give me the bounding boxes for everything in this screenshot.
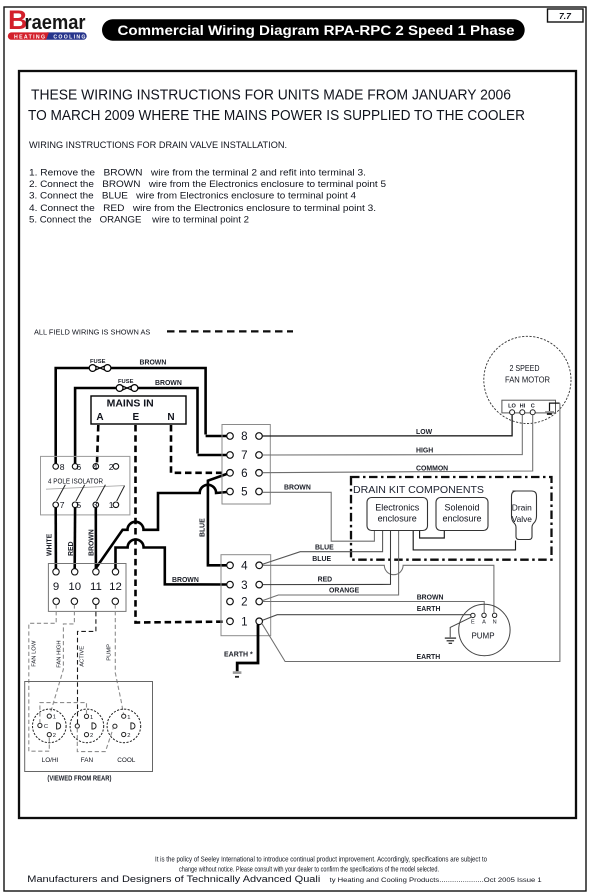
svg-text:N: N: [167, 412, 174, 423]
wire LOW terminal 8 to motor LO: [262, 415, 512, 436]
TB3 top circles: [53, 569, 119, 575]
wire ORANGE terminal 2 to electronics pin4: [263, 531, 399, 601]
svg-text:FAN: FAN: [81, 757, 94, 764]
svg-text:3. Connect the BLUE wire f: 3. Connect the BLUE wire from Electronic…: [29, 191, 356, 201]
svg-text:COOL: COOL: [117, 757, 136, 764]
svg-text:N: N: [493, 620, 497, 626]
TB2 numbers: [241, 560, 248, 629]
svg-text:MAINS IN: MAINS IN: [107, 398, 154, 409]
svg-text:4: 4: [93, 462, 98, 472]
svg-text:7: 7: [60, 500, 65, 510]
svg-text:change without notice. Please: change without notice. Please consult wi…: [179, 867, 439, 874]
svg-text:A: A: [96, 412, 103, 423]
TB3 numbers: [53, 581, 122, 593]
fuse F1: [89, 365, 111, 372]
wire dashed EARTH E from MAINS down to terminal 1: [136, 425, 228, 623]
wire BLUE terminal 6 to terminal 4: [208, 474, 228, 566]
4 pole isolator box: [41, 456, 130, 515]
svg-text:EARTH: EARTH: [417, 654, 441, 661]
svg-text:EARTH *: EARTH *: [224, 651, 253, 658]
wire dashed FAN LOW terminal 9 to LO/HI pin 2: [29, 604, 56, 751]
wire RED terminal 3 to electronics pin3: [263, 531, 391, 585]
fuse F2: [116, 385, 138, 392]
wire dashed ACTIVE A from MAINS to isolator 4: [97, 425, 98, 463]
wire EARTH terminal 1 to fan motor ground: [262, 403, 560, 661]
svg-text:9: 9: [53, 581, 59, 593]
svg-text:PUMP: PUMP: [471, 632, 494, 641]
wire from terminal12 top over to terminal 3 (jumps E dash): [116, 540, 228, 585]
wire BROWN from isolator 8 up-over to terminal 8 (left of fuse F1): [56, 368, 228, 465]
svg-text:A: A: [482, 620, 486, 626]
svg-text:6: 6: [241, 467, 247, 480]
svg-text:1: 1: [90, 715, 93, 721]
svg-text:TO MARCH 2009 WHERE THE MAINS: TO MARCH 2009 WHERE THE MAINS POWER IS S…: [28, 107, 525, 124]
svg-text:2: 2: [241, 596, 247, 609]
wire HIGH terminal 7 to motor HI: [262, 415, 522, 455]
svg-text:C: C: [531, 403, 535, 409]
svg-text:11: 11: [90, 581, 102, 593]
svg-text:HIGH: HIGH: [416, 447, 433, 454]
COOL key notch: [131, 723, 135, 729]
svg-text:LO: LO: [508, 403, 516, 409]
svg-text:BROWN: BROWN: [140, 359, 167, 366]
isolator bottom contacts 7 5 3 1: [53, 502, 119, 508]
svg-text:THESE WIRING INSTRUCTIONS FOR: THESE WIRING INSTRUCTIONS FOR UNITS MADE…: [31, 87, 511, 104]
svg-text:7.7: 7.7: [559, 11, 572, 21]
wire BROWN from isolator 6 up-over to terminal 7 (through fuse F2): [75, 388, 227, 464]
svg-text:HEATING: HEATING: [14, 34, 46, 40]
svg-text:RED: RED: [68, 541, 75, 556]
svg-text:4 POLE ISOLATOR: 4 POLE ISOLATOR: [48, 478, 103, 486]
wire RED isolator 5 to terminal 10: [73, 508, 76, 569]
svg-text:BROWN: BROWN: [88, 529, 95, 556]
svg-text:It is the policy of Seeley Int: It is the policy of Seeley International…: [155, 857, 487, 864]
wire dashed ACTIVE terminal 11 to FAN pin C: [78, 604, 96, 723]
svg-text:Commercial Wiring Diagram RPA-: Commercial Wiring Diagram RPA-RPC 2 Spee…: [118, 23, 515, 38]
svg-text:2. Connect the BROWN wire: 2. Connect the BROWN wire from the Elect…: [29, 179, 386, 189]
svg-text:8: 8: [60, 462, 65, 472]
TB1 terminal circles: [227, 433, 263, 495]
svg-text:RED: RED: [318, 576, 333, 583]
svg-text:2: 2: [127, 733, 130, 739]
svg-text:2: 2: [53, 733, 56, 739]
svg-text:COMMON: COMMON: [416, 465, 448, 472]
svg-text:4: 4: [241, 560, 248, 573]
field wiring legend dashed sample: [167, 330, 293, 332]
svg-text:1: 1: [241, 616, 247, 629]
svg-text:BLUE: BLUE: [315, 545, 334, 552]
terminal block TB2 (4 3 2 1): [221, 555, 271, 636]
svg-text:(VIEWED FROM REAR): (VIEWED FROM REAR): [47, 774, 111, 783]
COOL pins: [113, 714, 126, 737]
TB1 numbers: [241, 430, 247, 499]
svg-text:FAN MOTOR: FAN MOTOR: [505, 374, 550, 384]
svg-text:EARTH: EARTH: [417, 606, 441, 613]
FAN key notch: [92, 723, 96, 729]
svg-text:E: E: [132, 412, 139, 423]
isolator linkage bar: [46, 486, 124, 490]
svg-text:BROWN: BROWN: [417, 595, 444, 602]
svg-text:ALL FIELD WIRING IS SHOWN AS: ALL FIELD WIRING IS SHOWN AS: [34, 328, 150, 337]
svg-text:WHITE: WHITE: [47, 533, 54, 556]
connector COOL outline: [107, 709, 141, 743]
wire electronics pin6 to solenoid: [420, 531, 445, 538]
wire BROWN isolator 3 to terminal 11: [95, 508, 98, 569]
svg-text:PUMP: PUMP: [107, 644, 113, 661]
svg-text:BROWN: BROWN: [172, 577, 199, 584]
fan motor ground symbol: [545, 403, 560, 414]
svg-text:BROWN: BROWN: [155, 380, 182, 387]
svg-text:FUSE: FUSE: [118, 379, 134, 385]
svg-text:WIRING INSTRUCTIONS FOR DRAIN: WIRING INSTRUCTIONS FOR DRAIN VALVE INST…: [29, 140, 287, 150]
jumper dashed FAN pin C to COOL pin C: [77, 728, 113, 752]
svg-text:enclosure: enclosure: [378, 514, 417, 524]
LO/HI pins: [38, 714, 52, 737]
svg-text:10: 10: [68, 581, 81, 593]
svg-text:enclosure: enclosure: [442, 514, 481, 524]
fan motor terminal box: [502, 400, 556, 413]
pump ground symbol: [445, 617, 471, 643]
svg-text:BROWN: BROWN: [284, 485, 311, 492]
svg-text:C: C: [44, 724, 48, 730]
svg-text:1. Remove the BROWN wire f: 1. Remove the BROWN wire from the termin…: [29, 167, 366, 177]
svg-text:LO/HI: LO/HI: [42, 757, 59, 764]
wire BROWN terminal 5 to electronics pin1: [262, 492, 374, 541]
FAN pins: [75, 714, 88, 736]
wire dashed NEUTRAL N from MAINS to terminal 6: [171, 425, 227, 473]
drain kit components dash-dot box: [351, 477, 552, 560]
fan motor circle: [484, 336, 571, 423]
Braemar logo: [8, 5, 87, 40]
main content box: [19, 71, 576, 818]
svg-text:DRAIN KIT COMPONENTS: DRAIN KIT COMPONENTS: [353, 485, 484, 496]
wire BROWN branch from 11 up to terminal 5 (jumps E dash and BLUE): [96, 485, 228, 568]
svg-text:HI: HI: [520, 403, 526, 409]
svg-text:FAN LOW: FAN LOW: [32, 640, 38, 667]
svg-text:ACTIVE: ACTIVE: [79, 646, 85, 667]
svg-text:4. Connect the RED wire fr: 4. Connect the RED wire from the Electro…: [29, 203, 376, 213]
svg-text:7: 7: [241, 449, 247, 462]
wire EARTH from terminal 1 down to ground: [237, 624, 258, 671]
svg-text:5: 5: [76, 500, 81, 510]
terminal block TB3 (9 10 11 12): [48, 564, 126, 612]
connector FAN outline: [70, 709, 104, 743]
drain valve outline: [511, 491, 536, 540]
TB2 terminal circles: [227, 562, 263, 625]
pump terminals E A N: [471, 613, 497, 618]
svg-text:FUSE: FUSE: [90, 359, 106, 365]
svg-text:Drain: Drain: [512, 503, 532, 513]
svg-text:Manufacturers and Designers of: Manufacturers and Designers of Technical…: [27, 874, 320, 884]
ground symbol (terminal 1): [233, 673, 242, 677]
electronics enclosure box: [367, 498, 428, 531]
connector panel box: [25, 682, 153, 772]
wire BROWN terminal 2 to pump A: [263, 602, 485, 614]
fan motor terminals: [510, 410, 536, 415]
svg-text:ORANGE: ORANGE: [329, 588, 360, 595]
LO/HI key notch: [57, 723, 61, 729]
TB3 bottom circles: [53, 598, 119, 604]
svg-text:12: 12: [109, 581, 122, 593]
wire EARTH terminal 1 to pump E: [263, 615, 471, 621]
svg-text:BLUE: BLUE: [200, 518, 207, 537]
isolator top contact labels: [60, 462, 114, 472]
svg-text:6: 6: [76, 462, 81, 472]
svg-text:Solenoid: Solenoid: [444, 503, 479, 513]
terminal block TB1 (8 7 6 5): [222, 425, 270, 505]
svg-text:5: 5: [241, 486, 247, 499]
svg-text:1: 1: [127, 715, 130, 721]
isolator bottom contact labels: [60, 500, 114, 510]
isolator switch blades: [57, 485, 125, 501]
wire BLUE terminal 4 to pump N (jumps pins): [263, 565, 494, 613]
jumper dashed LO/HI pin C to FAN pin 1: [40, 703, 87, 724]
svg-text:FAN HIGH: FAN HIGH: [56, 640, 62, 667]
svg-text:5. Connect the ORANGE wir: 5. Connect the ORANGE wire to terminal p…: [29, 215, 249, 225]
pump circle: [459, 604, 510, 655]
svg-text:Valve: Valve: [512, 514, 533, 524]
svg-text:BLUE: BLUE: [312, 556, 331, 563]
connector LO/HI outline: [33, 709, 67, 743]
7.7 revision box: [548, 9, 584, 22]
svg-text:2: 2: [109, 462, 114, 472]
wire dashed FAN HIGH terminal 10 to LO/HI pin 1: [50, 604, 74, 714]
svg-text:1: 1: [53, 715, 56, 721]
wire COMMON terminal 6 to motor C: [262, 415, 532, 473]
svg-text:3: 3: [241, 579, 247, 592]
svg-text:LOW: LOW: [416, 429, 433, 436]
svg-text:2 SPEED: 2 SPEED: [510, 363, 540, 373]
svg-text:E: E: [471, 620, 475, 626]
wire WHITE isolator 7 to terminal 9: [54, 508, 57, 569]
wire electronics pin5 to drain valve: [413, 531, 515, 550]
svg-text:1: 1: [109, 500, 114, 510]
header title pill: [102, 19, 525, 40]
svg-text:2: 2: [90, 733, 93, 739]
solenoid enclosure box: [436, 498, 488, 531]
svg-text:ty Heating and Cooling Product: ty Heating and Cooling Products.........…: [330, 877, 542, 884]
wire BLUE terminal 4 to electronics pin2: [263, 531, 383, 564]
svg-text:Electronics: Electronics: [375, 503, 420, 513]
isolator top contacts 8 6 4 2: [53, 464, 119, 470]
wire dashed PUMP terminal 12 to COOL pin 1: [115, 604, 123, 714]
svg-text:raemar: raemar: [25, 11, 86, 34]
svg-text:8: 8: [241, 430, 247, 443]
svg-text:COOLING: COOLING: [53, 34, 86, 40]
MAINS IN box: [91, 396, 186, 424]
